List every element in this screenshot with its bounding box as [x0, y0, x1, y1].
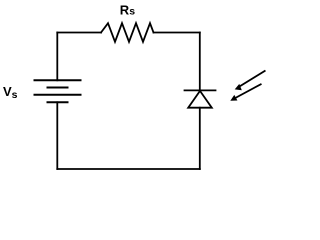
photodiode D1 triangle — [188, 91, 212, 108]
svg-text:Rs: Rs — [120, 3, 135, 18]
battery Vs plate short bottom — [48, 101, 68, 103]
wire left lower — [56, 102, 58, 169]
light arrow 1 shaft — [239, 71, 265, 87]
wire top-right segment — [154, 32, 200, 34]
light arrow 2 shaft — [235, 84, 261, 98]
battery Vs plate short — [48, 87, 68, 89]
wire right lower — [199, 108, 201, 169]
light arrow 2 head — [230, 95, 237, 101]
battery Vs plate long top — [35, 79, 81, 81]
resistor Rs — [101, 23, 154, 42]
wire right upper — [199, 33, 201, 91]
light arrow 1 head — [235, 84, 242, 90]
wire bottom — [57, 168, 200, 170]
wire top-left segment — [57, 32, 101, 34]
battery Vs plate long bottom — [35, 94, 81, 96]
photodiode D1 cathode bar — [185, 89, 216, 91]
wire left upper — [56, 33, 58, 81]
svg-text:Vs: Vs — [3, 84, 18, 101]
